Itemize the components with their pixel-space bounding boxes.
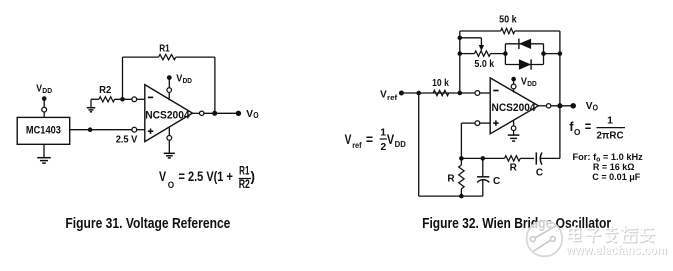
svg-text:1: 1 xyxy=(380,126,386,138)
svg-text:V: V xyxy=(380,88,387,100)
svg-text:O: O xyxy=(593,103,598,112)
svg-text:V: V xyxy=(345,132,352,147)
svg-text:O: O xyxy=(253,111,258,120)
svg-text:C: C xyxy=(493,176,500,187)
svg-text:O: O xyxy=(574,128,581,137)
svg-text:MC1403: MC1403 xyxy=(26,125,61,137)
svg-text:10 k: 10 k xyxy=(432,78,449,89)
svg-text:V: V xyxy=(387,132,394,147)
svg-text:50 k: 50 k xyxy=(499,14,517,25)
svg-text:Figure 32. Wien Bridge Oscilla: Figure 32. Wien Bridge Oscillator xyxy=(422,216,611,232)
svg-text:2πRC: 2πRC xyxy=(596,130,624,141)
svg-text:2: 2 xyxy=(380,141,386,153)
svg-text:R2: R2 xyxy=(99,85,112,96)
svg-text:V: V xyxy=(246,108,253,120)
svg-text:= 2.5 V(1 +: = 2.5 V(1 + xyxy=(179,169,233,184)
svg-text:C = 0.01 μF: C = 0.01 μF xyxy=(592,172,640,183)
svg-text:2.5 V: 2.5 V xyxy=(116,134,138,146)
svg-text:ref: ref xyxy=(352,140,362,150)
svg-text:R: R xyxy=(447,174,455,185)
svg-text:V: V xyxy=(159,169,166,184)
svg-text:Figure 31. Voltage Reference: Figure 31. Voltage Reference xyxy=(65,216,230,232)
svg-text:ref: ref xyxy=(387,93,398,102)
svg-text:DD: DD xyxy=(42,86,52,95)
svg-text:R2: R2 xyxy=(239,179,250,191)
svg-text:V: V xyxy=(586,100,593,112)
svg-text:): ) xyxy=(251,169,256,184)
svg-text:NCS2004: NCS2004 xyxy=(145,110,190,122)
svg-text:www.elecfans.com: www.elecfans.com xyxy=(565,243,667,257)
svg-text:DD: DD xyxy=(527,79,536,88)
svg-text:NCS2004: NCS2004 xyxy=(492,102,537,114)
svg-text:=: = xyxy=(366,132,373,147)
svg-text:C: C xyxy=(536,168,543,179)
svg-text:R1: R1 xyxy=(239,166,250,178)
svg-text:R: R xyxy=(510,162,518,173)
svg-text:=: = xyxy=(585,119,591,134)
svg-text:R1: R1 xyxy=(159,44,170,55)
svg-text:DD: DD xyxy=(183,76,192,85)
svg-text:5.0 k: 5.0 k xyxy=(474,59,494,70)
svg-text:DD: DD xyxy=(395,140,406,149)
svg-text:1: 1 xyxy=(607,115,613,127)
svg-text:O: O xyxy=(168,180,174,190)
